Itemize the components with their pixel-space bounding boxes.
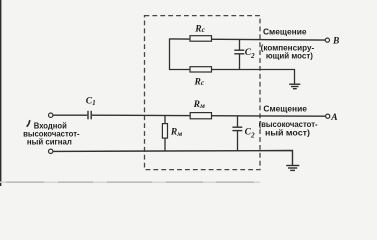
svg-text:Смещение: Смещение bbox=[263, 27, 307, 36]
node B terminal circle bbox=[325, 38, 329, 42]
input terminal (upper) bbox=[49, 113, 53, 117]
text: input high-frequency signal bbox=[27, 121, 30, 127]
node A terminal circle bbox=[326, 114, 330, 118]
svg-text:ный сигнал: ный сигнал bbox=[27, 138, 72, 147]
resistor Rc (upper) bbox=[190, 36, 212, 42]
svg-text:ющий мост): ющий мост) bbox=[266, 52, 313, 61]
capacitor C1 plates bbox=[87, 111, 89, 120]
capacitor C2 (lower) plates bbox=[232, 126, 242, 128]
resistor Rc (lower) bbox=[190, 67, 212, 72]
dashed enclosure box bbox=[145, 16, 261, 170]
ground (high-frequency bridge) bbox=[286, 165, 299, 167]
wire: top bridge left vertical bbox=[169, 38, 171, 70]
wire: bottom rail to ground corner bbox=[53, 151, 292, 166]
svg-text:A: A bbox=[330, 113, 337, 123]
svg-text:Rc: Rc bbox=[194, 77, 205, 87]
wire: top bridge lower rail to ground corner bbox=[170, 70, 295, 84]
wire: top bridge upper rail to node B bbox=[170, 39, 326, 40]
svg-text:C1: C1 bbox=[86, 96, 96, 107]
resistor Rm (vertical) bbox=[162, 124, 167, 139]
svg-text:Rм: Rм bbox=[193, 100, 205, 110]
wire: input upper to C1 bbox=[53, 114, 87, 116]
input terminal (lower) bbox=[49, 149, 53, 153]
svg-text:Смещение: Смещение bbox=[263, 105, 307, 114]
svg-text:ный мост): ный мост) bbox=[265, 128, 310, 137]
resistor Rm (horizontal) bbox=[190, 113, 211, 119]
ground (compensating bridge) bbox=[289, 83, 300, 85]
wire: capacitor C2 (lower) branch bbox=[237, 115, 239, 127]
wire: C1 to node A rail bbox=[92, 115, 326, 116]
wire: capacitor C2 (upper) branch bbox=[239, 39, 241, 50]
capacitor C2 (upper) plates bbox=[234, 49, 244, 51]
svg-text:B: B bbox=[332, 36, 339, 46]
svg-text:Rc: Rc bbox=[194, 24, 205, 34]
wire: vertical Rm branch bbox=[164, 115, 166, 123]
scan edge bottom gray bar bbox=[0, 181, 260, 183]
scan edge left black line bbox=[0, 0, 1, 186]
